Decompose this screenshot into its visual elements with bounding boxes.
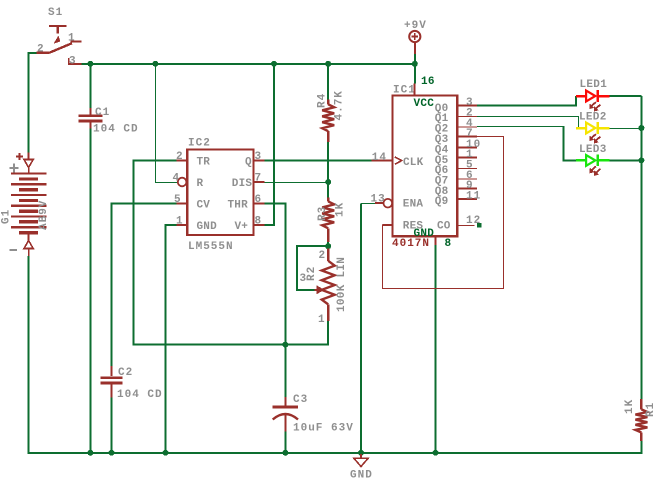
IC1 pin 3 Q0 stub [457,105,477,107]
wire: C3 bottom to ground bus [284,432,286,454]
svg-text:R3: R3 [317,206,329,221]
IC1 pin number 5 [466,159,474,171]
svg-text:GND: GND [197,221,218,233]
junction on +9V bus at R4 [325,61,331,67]
battery G1 (AB9V) [11,153,47,257]
wire: THR net down to C3 [264,204,285,398]
IC1 pin name Q6 [435,165,449,177]
label C3 [293,394,308,406]
value 4.7K [334,90,346,120]
IC1 pin number 11 [466,191,481,203]
IC1 pin number 4 [466,118,474,130]
value 10uF 63V [293,423,354,435]
svg-text:ENA: ENA [403,198,424,210]
IC1 pin name RES [403,221,424,233]
label LED1 [580,79,608,91]
svg-text:6: 6 [255,194,263,206]
IC1 pin number 12 [466,215,481,227]
IC2 pin 1 GND stub [177,224,188,226]
wire: battery - to ground bus [28,256,30,454]
label R2 [306,266,318,281]
svg-text:IC2: IC2 [188,138,211,150]
wire: 555 reset net (bus to pin 4) [156,63,178,182]
IC1 pin number 6 [466,170,474,182]
IC2 pin number 8 [255,216,263,228]
junction cathode bus at LED2 [638,125,644,131]
label IC1 [393,85,416,97]
wire: LED cathode bus down to R1 [640,96,642,399]
potentiometer R2 [315,248,335,321]
resistor R3 [322,198,334,242]
IC2 pin 8 V+ stub [254,224,265,226]
IC2 pin name V+ [235,221,249,233]
label R1 [645,402,657,417]
wire: Q3 to RES feedback (net in symbol color) [383,137,504,289]
svg-text:G1: G1 [1,209,13,224]
wire: 4017 GND to ground bus [435,245,437,454]
switch S1 [37,26,82,64]
svg-text:LED1: LED1 [580,79,608,91]
label S1 [48,7,63,19]
svg-text:V+: V+ [235,221,249,233]
value 100K LIN [336,257,348,312]
junction DIS/R4/R3 [325,179,331,185]
label R3 [317,206,329,221]
svg-text:THR: THR [228,200,249,212]
R2 pin number 3 [300,273,308,285]
svg-text:3: 3 [255,151,263,163]
switch pin number 2 [37,44,45,56]
svg-text:R: R [197,178,204,190]
IC1 pin number 8 [445,238,452,250]
svg-text:10uF 63V: 10uF 63V [293,423,354,435]
IC1 pin 9 Q8 stub [457,188,477,190]
svg-text:2: 2 [37,44,45,56]
wire: +9V top bus [81,63,414,65]
IC1 pin number 10 [466,139,481,151]
battery plus mark [10,164,19,173]
svg-text:7: 7 [255,173,263,185]
svg-text:104 CD: 104 CD [117,389,163,401]
IC1 pin name CLK [403,157,424,169]
svg-text:8: 8 [445,238,452,250]
value 4017N [392,238,430,250]
IC1 pin number 2 [466,107,474,119]
capacitor C3 (polarized) [273,397,298,432]
IC1 pin 14 CLK stub [372,157,402,164]
wire: LED1 cathode to bus [609,95,641,97]
svg-text:GND: GND [350,470,373,481]
svg-text:8: 8 [255,216,263,228]
svg-text:S1: S1 [48,7,63,19]
IC1 pin number 3 [466,97,474,109]
svg-text:14: 14 [372,152,387,164]
ground symbol GND [354,453,368,467]
svg-text:2: 2 [319,250,327,262]
junction R3/R2 wiper node [325,243,331,249]
IC1 pin 6 Q7 stub [457,178,477,180]
IC2 pin name THR [228,200,249,212]
IC1 pin 10 Q4 stub [457,146,477,148]
label LED3 [579,144,607,156]
label C2 [118,367,133,379]
IC1 pin 5 Q6 stub [457,168,477,170]
IC1 pin number 13 [371,194,386,206]
IC1 pin 1 Q5 stub [457,157,477,159]
IC1 pin name VCC [414,98,435,110]
junction ground bus at C1 [87,450,93,456]
svg-text:CLK: CLK [403,157,424,169]
label IC2 [188,138,211,150]
switch pin number 1 [68,33,76,45]
IC1 pin name Q2 [435,124,449,136]
svg-text:4.7K: 4.7K [334,90,346,120]
capacitor C1 [78,108,102,129]
IC2 pin 5 CV stub [177,203,188,205]
wire: Q0 to LED1 [477,96,576,106]
IC1 pin name Q0 [435,103,449,115]
wire: LED2 cathode to bus [609,128,641,130]
IC2 pin 3 Q stub [254,160,265,162]
wire: Q2 to LED3 [477,127,576,161]
IC1 pin number 9 [466,180,474,192]
IC1 GND pin stub (8) [435,236,437,245]
svg-text:LED3: LED3 [579,144,607,156]
svg-text:C3: C3 [293,394,308,406]
junction ground bus at C2 [109,450,115,456]
svg-text:1: 1 [68,33,76,45]
IC1 pin name Q4 [435,145,449,157]
junction ground bus at 555 GND [163,450,169,456]
wire: DIS to R4/R3 junction [264,182,328,184]
IC1 pin number 7 [466,128,474,140]
resistor R1 [635,399,647,441]
IC2 555 box [187,150,253,236]
IC2 pin 6 THR stub [254,203,265,205]
supply +9V symbol P1 [409,31,420,54]
IC1 pin 4 Q2 stub [457,126,477,128]
svg-text:Q9: Q9 [435,196,449,208]
IC2 pin number 2 [176,151,184,163]
IC2 pin number 3 [255,151,263,163]
battery minus mark [10,249,18,251]
IC2 pin name CV [197,200,211,212]
svg-text:100K LIN: 100K LIN [336,257,348,312]
svg-text:IC1: IC1 [393,85,416,97]
wire: C2 bottom to ground bus [111,398,113,454]
wire: ENA to ground bus [361,204,375,454]
R2 pin number 1 [318,314,326,326]
IC1 pin number 14 [372,152,387,164]
IC2 pin number 7 [255,173,263,185]
R2 pin number 2 [319,250,327,262]
value LM555N [188,241,234,253]
wire: R3 bottom to R2 node [327,242,329,249]
wire: Q1 to LED2 [477,117,579,129]
IC2 pin number 4 [173,173,181,185]
svg-text:C2: C2 [118,367,133,379]
IC1 pin 13 ENA stub with bubble [375,199,392,208]
wire: CV net (pin5 to C2) [112,204,177,367]
svg-text:1: 1 [318,314,326,326]
label C1 [95,107,110,119]
IC1 pin name Q5 [435,155,449,167]
IC1 pin 12 CO stub [457,225,474,227]
svg-text:16: 16 [421,76,435,88]
IC2 pin name DIS [232,178,253,190]
IC2 pin 2 TR stub [177,160,188,162]
junction on +9V bus at 555 reset line [152,61,158,67]
wire: ground bottom bus [29,452,642,454]
LED1 (red) [576,90,610,111]
IC1 4017 box [392,95,457,236]
LED3 (green) [576,155,610,176]
value 1K (R3) [335,202,347,217]
junction ground bus at GND symbol [358,450,364,456]
label LED2 [579,112,607,124]
label R4 [317,93,329,108]
junction on +9V bus at 555 V+ line [271,61,277,67]
wire: C1 branch from bus to ground [89,63,91,454]
wire: +9V stem to bus [414,54,416,65]
IC2 pin number 5 [174,194,182,206]
svg-text:1K: 1K [624,399,636,414]
svg-text:AB9V: AB9V [38,200,50,230]
svg-text:LED2: LED2 [579,112,607,124]
svg-text:TR: TR [197,157,211,169]
value 1K (R1) [624,399,636,414]
IC1 pin name Q3 [435,134,449,146]
IC2 pin name R [197,178,204,190]
svg-text:Q: Q [245,157,252,169]
IC2 pin 4 R bubble [178,178,187,187]
wire: Q output to CLK [264,160,371,162]
svg-text:11: 11 [466,191,481,203]
wire: R4 bottom to DIS junction [327,142,329,198]
junction at +9V supply stem [412,61,418,67]
label AB9V [38,200,50,230]
svg-text:VCC: VCC [414,98,435,110]
svg-text:CO: CO [437,221,451,233]
svg-text:R2: R2 [306,266,318,281]
svg-text:3: 3 [300,273,308,285]
value 104 CD (C1) [93,124,139,136]
svg-text:LM555N: LM555N [188,241,234,253]
wire: TR net (pin2 left, down, right to C3 node) [134,161,286,345]
IC2 pin number 1 [176,216,184,228]
svg-text:2: 2 [176,151,184,163]
switch pin number 3 [69,56,77,68]
IC2 pin number 6 [255,194,263,206]
IC1 pin name Q9 [435,196,449,208]
wire: V+ net (bus down to pin 8) [264,63,274,225]
wire: R4 top to bus [327,63,329,100]
svg-text:104 CD: 104 CD [93,124,139,136]
junction on +9V bus at C1 [87,61,93,67]
IC1 pin name GND [414,228,435,240]
IC1 pin 11 Q9 stub [457,198,477,200]
svg-text:1: 1 [176,216,184,228]
IC1 pin number 1 [466,149,474,161]
IC1 pin name ENA [403,198,424,210]
svg-text:R1: R1 [645,402,657,417]
IC1 pin name Q8 [435,186,449,198]
svg-text:DIS: DIS [232,178,253,190]
svg-text:3: 3 [69,56,77,68]
IC1 pin 2 Q1 stub [457,116,477,118]
junction THR/TR/C3/R2 node [282,342,288,348]
IC2 pin 7 DIS stub [254,181,265,183]
value 104 CD (C2) [117,389,163,401]
svg-text:+9V: +9V [404,20,427,32]
IC2 pin name GND [197,221,218,233]
wire: switch pin2 to battery + [29,53,37,153]
IC1 pin number 16 [421,76,435,88]
junction cathode bus at LED3 [638,157,644,163]
junction ground bus at C3 [282,450,288,456]
IC2 pin name Q [245,157,252,169]
resistor R4 [322,99,334,142]
svg-text:RES: RES [403,221,424,233]
svg-text:C1: C1 [95,107,110,119]
wire: bus to VCC pin [414,63,416,84]
LED2 (yellow) [576,122,610,143]
label G1 [1,209,13,224]
IC2 pin name TR [197,157,211,169]
wire: R1 bottom to ground bus [640,441,642,454]
IC1 pin 7 Q3 stub [457,136,477,138]
IC1 pin name Q1 [435,113,449,125]
wire: 555 GND net (pin1 to ground bus) [166,225,177,454]
IC1 VCC pin stub (16) [414,84,416,96]
capacitor C2 [101,366,123,398]
svg-text:R4: R4 [317,93,329,108]
label GND (symbol) [350,470,373,481]
IC1 pin name Q7 [435,176,449,188]
wire: R2 wiper loop to top [297,246,328,290]
wire: LED3 cathode to bus [609,159,641,161]
svg-text:4: 4 [173,173,181,185]
svg-text:CV: CV [197,200,211,212]
wire stub at CO pin [477,223,482,228]
label +9V [404,20,427,32]
junction ground bus at 4017 GND [433,450,439,456]
wire: R2 bottom to TR/THR node [285,321,328,345]
svg-text:1K: 1K [335,202,347,217]
IC1 pin name CO [437,221,451,233]
